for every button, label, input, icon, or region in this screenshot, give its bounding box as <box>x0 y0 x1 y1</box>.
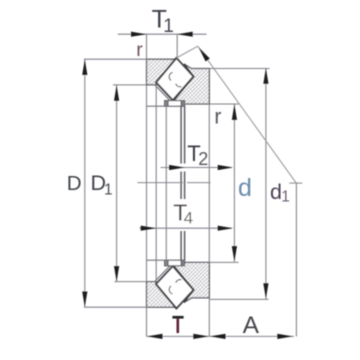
roller profile arc 1 (top) <box>169 72 172 80</box>
D top ext y=59.2 <box>84 58 147 60</box>
ext line x=209.3 housing back face <box>208 104 210 262</box>
label T (bottom, bar+maroon stem) <box>172 316 183 319</box>
ext line x=146.5 washer back face <box>146 34 148 59</box>
d1 top ext y=68.5 <box>209 68 269 70</box>
d bottom ext y=262.4 <box>209 261 238 263</box>
shaft washer WS (bottom, hatched) <box>147 282 177 308</box>
sleeve band (bottom) <box>165 260 185 266</box>
label T4 <box>171 201 192 224</box>
svg-text:r: r <box>214 105 221 128</box>
housing washer GS (bottom, hatched) <box>171 262 210 302</box>
roller (top, tilted rectangle) <box>156 58 194 100</box>
svg-text:d: d <box>238 174 252 202</box>
A right extension from load line end <box>295 183 297 337</box>
svg-text:1: 1 <box>163 16 174 37</box>
svg-text:r: r <box>136 39 143 61</box>
svg-text:4: 4 <box>184 209 193 228</box>
ext line x=184.6 sleeve tube right <box>184 106 186 163</box>
d top ext y=104 <box>209 103 238 105</box>
raceway edge GS (bottom) <box>171 262 194 302</box>
sleeve band slots (bottom) <box>165 260 168 265</box>
ext line x=181.1 sleeve tube left <box>180 106 182 163</box>
band bottom edge extension (top) <box>147 105 165 107</box>
band top edge extension (bottom) <box>147 259 165 261</box>
svg-text:d: d <box>270 180 282 204</box>
ext line x=166.3 sleeve left <box>165 106 167 260</box>
raceway edge WS (top) <box>156 58 176 82</box>
cage line (top) <box>155 85 171 102</box>
sleeve band (top) <box>165 101 185 107</box>
D1 top ext y=85 <box>113 84 147 86</box>
roller (bottom) <box>156 266 194 308</box>
svg-text:A: A <box>243 312 260 339</box>
shaft washer WS (top, hatched) <box>147 59 177 85</box>
roller profile arc 2 (top) <box>176 84 182 87</box>
ext line x=177.2 T1 right (roller apex) <box>176 34 178 57</box>
ext line x=156.2 roller corner <box>155 85 157 282</box>
svg-text:D: D <box>67 172 82 195</box>
d1 bottom ext y=297.9 <box>209 298 268 300</box>
raceway edge GS (top) <box>171 64 194 104</box>
svg-text:1: 1 <box>104 182 113 199</box>
D bottom ext y=307.2 <box>84 306 147 308</box>
housing washer GS (top, hatched) <box>171 64 210 104</box>
cage line (bottom) <box>155 265 171 282</box>
raceway edge WS (bottom) <box>156 284 176 308</box>
roller profile arc 1 (bottom) <box>169 286 172 294</box>
D1 bottom ext y=281.6 <box>114 281 146 283</box>
roller profile arc 2 (bottom) <box>176 280 182 283</box>
svg-text:2: 2 <box>198 149 208 169</box>
sleeve band slots (top) <box>165 101 168 106</box>
svg-text:1: 1 <box>281 189 290 206</box>
